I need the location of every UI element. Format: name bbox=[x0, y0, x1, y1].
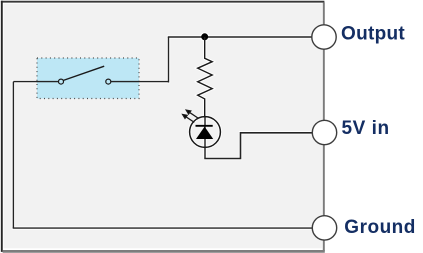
wire casings bbox=[13, 32, 311, 228]
svg-text:Output: Output bbox=[341, 23, 405, 44]
terminal: 5V in bbox=[312, 120, 336, 144]
wire: top rail to Output bbox=[168, 36, 312, 38]
board outline bbox=[1, 1, 325, 252]
switch highlight box bbox=[37, 58, 139, 99]
svg-text:Ground: Ground bbox=[344, 217, 416, 238]
resistor R1 bbox=[198, 37, 213, 117]
wire: switch to riser bbox=[111, 81, 169, 83]
wire: left vertical down bbox=[12, 82, 14, 228]
wire: ground run bbox=[13, 227, 313, 229]
wire: left feed to switch bbox=[13, 81, 58, 83]
terminal: Output bbox=[312, 25, 336, 49]
wire: riser to top rail bbox=[168, 37, 170, 83]
terminal: Ground bbox=[312, 216, 336, 240]
wire: LED to 5V jog bbox=[204, 133, 312, 159]
svg-text:5V in: 5V in bbox=[342, 118, 390, 139]
node junction dot bbox=[201, 33, 208, 40]
LED light arrows bbox=[183, 110, 198, 122]
switch S1 bbox=[59, 66, 111, 84]
LED D1 bbox=[190, 117, 221, 159]
